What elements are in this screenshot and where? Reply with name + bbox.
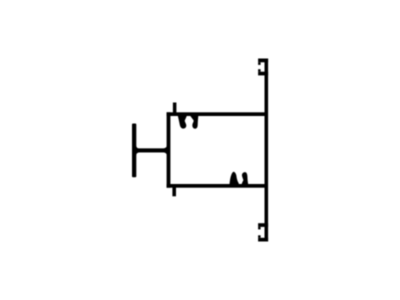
node left flange: [132, 124, 136, 178]
node bottom screw port left claw: [229, 172, 239, 185]
node bottom tick: [172, 188, 176, 197]
wire right panel bar: [265, 59, 269, 242]
node top C-hook lower tab: [258, 72, 268, 76]
node stem fillet box top: [162, 145, 167, 149]
node top C-hook lower lip: [258, 69, 261, 72]
node top C-hook top lip: [258, 62, 261, 65]
wire bottom horizontal line: [167, 184, 266, 188]
wire stem: [134, 148, 168, 152]
node bottom screw port right claw: [241, 172, 248, 185]
wire top horizontal line: [167, 112, 266, 116]
node top C-hook top tab: [258, 59, 268, 63]
node stem fillet box bottom: [162, 152, 167, 156]
node bottom C-hook bottom lip: [258, 235, 261, 238]
node top screw port left claw: [178, 115, 188, 129]
node stem fillet flange bottom: [136, 152, 141, 155]
node top screw port right claw: [189, 115, 198, 129]
node bottom C-hook upper tab: [258, 223, 268, 227]
node stem fillet flange top: [136, 145, 141, 148]
node bottom C-hook upper lip: [258, 227, 261, 230]
node bottom C-hook bottom tab: [258, 238, 268, 242]
node top tick: [173, 103, 177, 114]
wire left box vertical: [167, 112, 171, 187]
